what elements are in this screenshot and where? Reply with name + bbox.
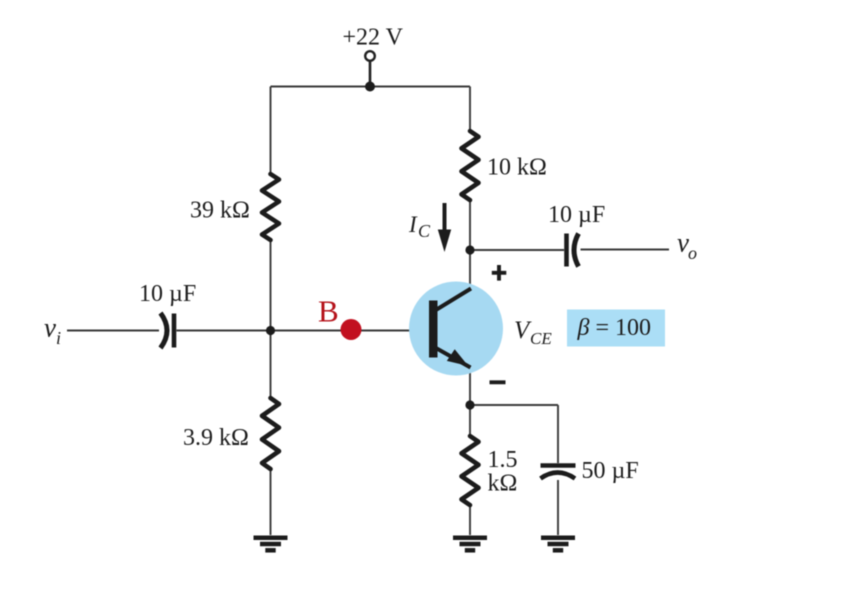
svg-text:v: v <box>44 313 56 343</box>
svg-text:kΩ: kΩ <box>488 471 518 497</box>
svg-text:C: C <box>418 221 431 241</box>
svg-text:3.9 kΩ: 3.9 kΩ <box>183 425 249 451</box>
svg-text:B: B <box>318 294 339 329</box>
svg-text:I: I <box>408 212 418 237</box>
svg-text:o: o <box>688 243 697 263</box>
svg-text:39 kΩ: 39 kΩ <box>190 198 250 224</box>
svg-text:10 kΩ: 10 kΩ <box>487 155 547 181</box>
svg-text:50 µF: 50 µF <box>582 458 639 484</box>
svg-text:β = 100: β = 100 <box>577 315 652 341</box>
svg-text:1.5: 1.5 <box>488 447 518 473</box>
svg-text:10 µF: 10 µF <box>139 281 196 307</box>
svg-text:+22 V: +22 V <box>343 25 404 51</box>
svg-text:10 µF: 10 µF <box>548 202 605 228</box>
svg-text:CE: CE <box>530 329 552 348</box>
svg-text:i: i <box>56 328 61 348</box>
